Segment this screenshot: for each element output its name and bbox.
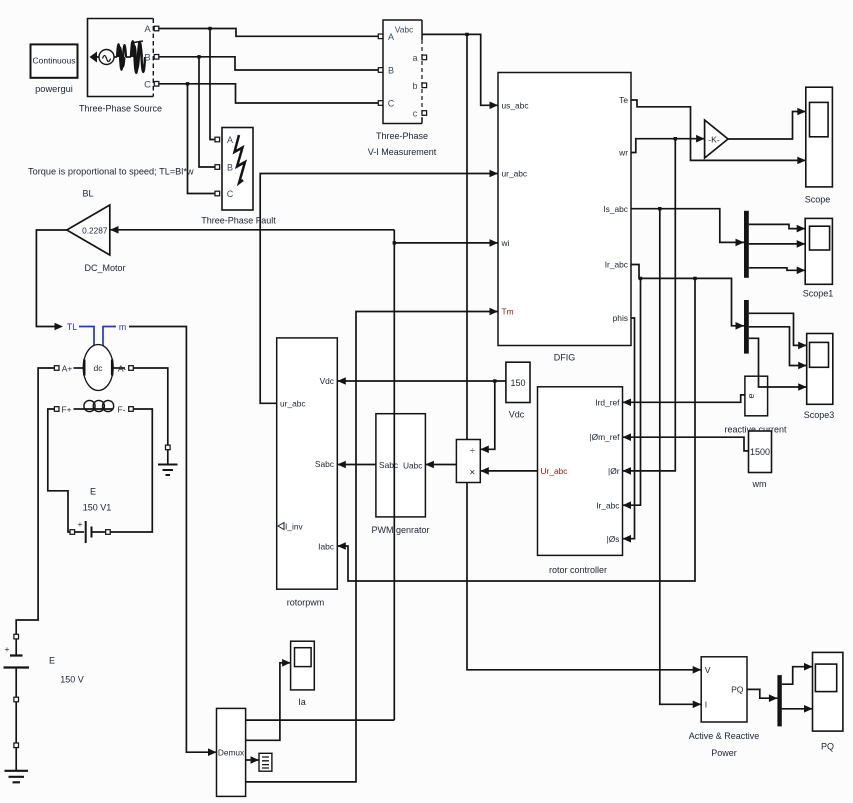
svg-text:Power: Power (711, 748, 737, 758)
svg-text:DFIG: DFIG (554, 353, 576, 363)
svg-text:Ird_ref: Ird_ref (595, 398, 620, 408)
svg-text:A: A (144, 24, 151, 35)
svg-text:Te: Te (619, 95, 628, 105)
svg-text:Tm: Tm (502, 307, 514, 317)
svg-text:rotorpwm: rotorpwm (287, 598, 325, 608)
svg-text:÷: ÷ (470, 445, 475, 456)
svg-text:Demux: Demux (218, 748, 245, 758)
svg-text:wi: wi (501, 238, 510, 248)
svg-text:C: C (388, 99, 395, 109)
svg-text:b: b (412, 81, 417, 91)
svg-text:PWM genrator: PWM genrator (371, 525, 429, 535)
svg-text:+: + (5, 644, 10, 654)
svg-text:F+: F+ (61, 404, 71, 414)
svg-text:Continuous: Continuous (32, 56, 75, 66)
svg-text:Three-Phase Source: Three-Phase Source (79, 104, 162, 114)
svg-text:|Ør: |Ør (608, 466, 620, 476)
svg-text:A+: A+ (62, 363, 73, 373)
svg-text:Three-Phase: Three-Phase (376, 131, 428, 141)
svg-text:Scope: Scope (805, 195, 831, 205)
svg-text:dc: dc (93, 363, 103, 373)
svg-text:Sabc: Sabc (315, 459, 334, 469)
svg-text:Ir_abc: Ir_abc (605, 260, 628, 270)
svg-text:×: × (469, 468, 475, 479)
svg-text:e: e (746, 393, 756, 398)
svg-text:Active & Reactive: Active & Reactive (689, 731, 760, 741)
svg-text:Vabc: Vabc (395, 25, 413, 35)
svg-text:B: B (388, 66, 394, 76)
svg-text:Uabc: Uabc (403, 460, 423, 470)
svg-text:ur_abc: ur_abc (280, 399, 306, 409)
svg-text:-K-: -K- (708, 134, 720, 144)
svg-text:powergui: powergui (35, 84, 73, 94)
svg-text:Torque is proportional to spee: Torque is proportional to speed; TL=Bl*w (28, 167, 194, 177)
svg-text:us_abc: us_abc (502, 101, 529, 111)
svg-text:Three-Phase Fault: Three-Phase Fault (201, 216, 276, 226)
svg-text:PQ: PQ (731, 685, 744, 695)
svg-text:Scope3: Scope3 (804, 410, 835, 420)
svg-text:Sabc: Sabc (379, 460, 398, 470)
svg-text:a: a (412, 53, 417, 63)
svg-text:C: C (144, 80, 151, 91)
svg-text:E: E (49, 656, 55, 666)
svg-text:Iabc: Iabc (318, 541, 334, 551)
svg-text:PQ: PQ (821, 742, 834, 752)
svg-text:F-: F- (118, 404, 126, 414)
svg-text:|Øm_ref: |Øm_ref (589, 432, 620, 442)
svg-text:A: A (227, 135, 233, 145)
svg-text:Vdc: Vdc (320, 376, 334, 386)
svg-text:TL: TL (67, 322, 77, 332)
svg-text:B: B (227, 163, 233, 173)
svg-text:c: c (413, 109, 418, 119)
svg-text:E: E (90, 487, 96, 497)
svg-text:wm: wm (752, 479, 767, 489)
svg-text:Ir_abc: Ir_abc (596, 501, 619, 511)
svg-text:|Øs: |Øs (607, 534, 620, 544)
svg-text:0.2287: 0.2287 (82, 225, 108, 235)
svg-text:Ur_abc: Ur_abc (541, 466, 568, 476)
svg-text:150 V1: 150 V1 (83, 503, 112, 513)
svg-text:V-I Measurement: V-I Measurement (368, 147, 437, 157)
svg-text:Scope1: Scope1 (803, 289, 834, 299)
svg-text:1500: 1500 (750, 447, 770, 457)
svg-text:DC_Motor: DC_Motor (84, 263, 125, 273)
svg-text:Vdc: Vdc (509, 410, 525, 420)
svg-text:I: I (705, 700, 707, 710)
svg-text:+: + (78, 519, 83, 529)
svg-text:BL: BL (82, 189, 93, 199)
svg-text:Ia: Ia (298, 697, 306, 707)
svg-text:150 V: 150 V (60, 675, 84, 685)
svg-text:phis: phis (613, 313, 628, 323)
svg-text:B: B (144, 53, 150, 64)
svg-text:A-: A- (118, 363, 127, 373)
svg-text:Is_abc: Is_abc (603, 204, 628, 214)
svg-text:150: 150 (510, 378, 525, 388)
svg-text:m: m (119, 322, 126, 332)
svg-text:rotor controller: rotor controller (549, 565, 607, 575)
svg-text:A: A (388, 32, 394, 42)
svg-text:C: C (227, 189, 234, 199)
svg-text:ur_abc: ur_abc (502, 169, 528, 179)
svg-text:I_inv: I_inv (285, 521, 304, 531)
svg-text:wr: wr (618, 148, 628, 158)
svg-text:V: V (705, 665, 711, 675)
